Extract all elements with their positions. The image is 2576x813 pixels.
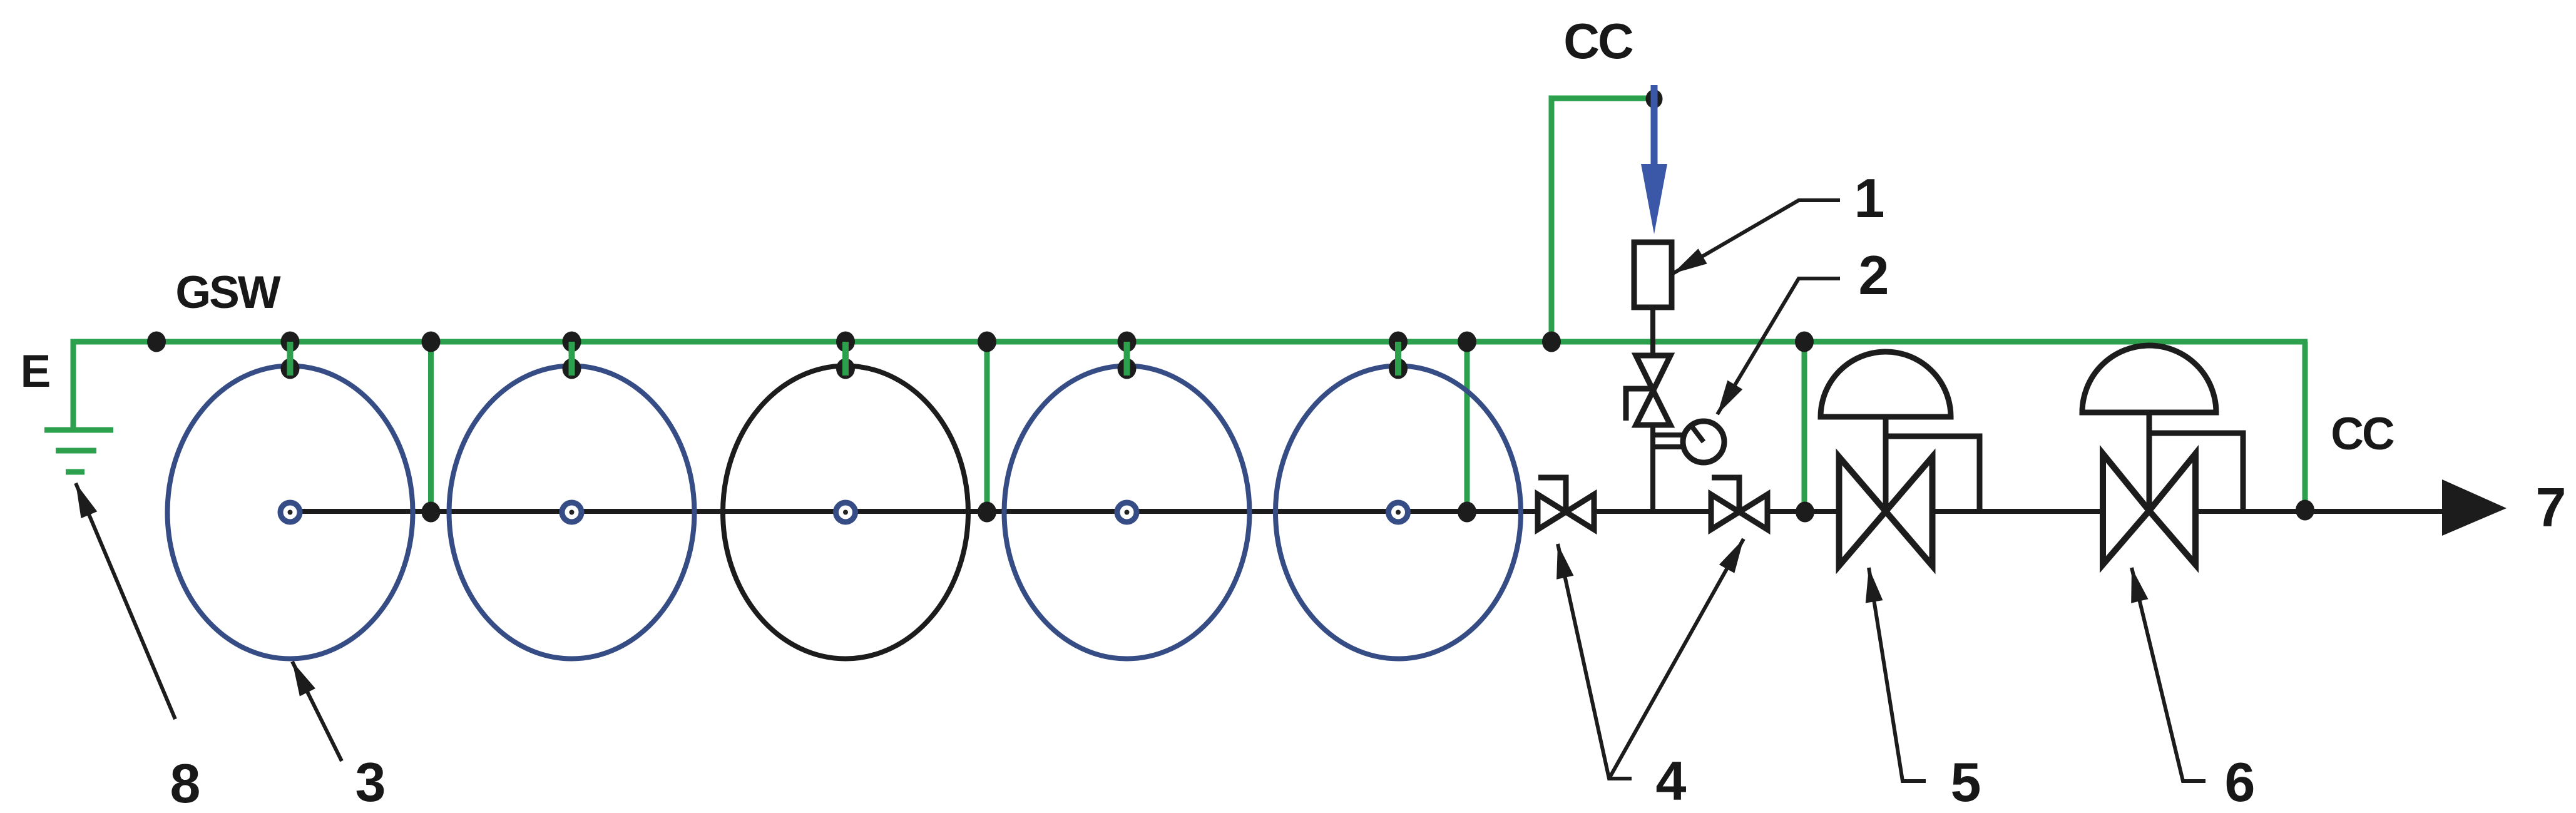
actuated valve 6 <box>2082 345 2243 565</box>
needle valve below regulator <box>1626 355 1670 425</box>
leader label 3 <box>292 662 342 761</box>
svg-text:5: 5 <box>1951 751 1981 813</box>
cylinder top nodes <box>281 359 300 379</box>
actuated valve 5 <box>1821 352 1980 566</box>
outlet arrow 7 <box>2442 479 2507 536</box>
svg-text:2: 2 <box>1859 244 1889 306</box>
wire CC drop right <box>2303 342 2308 510</box>
hand valve 4a <box>1538 478 1594 529</box>
bus junction nodes <box>147 332 166 352</box>
svg-text:7: 7 <box>2536 476 2567 538</box>
hand valve 4b <box>1711 478 1767 529</box>
pressure gauge 2 <box>1653 421 1724 463</box>
wire stubs bus-to-cylinder tops <box>287 342 294 376</box>
cylinder (second) <box>449 366 695 659</box>
svg-text:E: E <box>21 346 51 397</box>
leader label 8 <box>76 483 175 719</box>
svg-text:3: 3 <box>355 751 386 813</box>
pipe junction nodes <box>422 502 441 523</box>
cylinder (fifth) <box>1275 366 1521 659</box>
cylinder (fourth) <box>1004 366 1250 659</box>
svg-text:CC: CC <box>2331 409 2394 459</box>
svg-text:4: 4 <box>1656 750 1687 812</box>
node CC top <box>1646 89 1663 108</box>
wire main pipe <box>290 509 2443 514</box>
svg-text:GSW: GSW <box>175 267 280 318</box>
wire drop to pipe node C <box>1464 342 1470 511</box>
wire needle valve to pipe <box>1650 425 1655 511</box>
leader label 1 <box>1673 200 1840 274</box>
wire ground drop E <box>71 342 76 432</box>
leader label 6 <box>2132 568 2205 781</box>
leader label 4 <box>1558 544 1632 779</box>
regulator 1 body <box>1634 242 1672 307</box>
wire GSW bus <box>71 339 2308 345</box>
svg-text:1: 1 <box>1854 167 1885 229</box>
leader label 2 <box>1717 279 1840 414</box>
wire drop to pipe node B <box>984 342 990 511</box>
svg-text:6: 6 <box>2225 751 2256 813</box>
cylinder 3 (first) <box>168 366 413 659</box>
cylinder (third) <box>723 366 968 659</box>
wire drop to pipe node D <box>1802 342 1807 511</box>
cylinder center ports <box>280 503 300 522</box>
wire drop to pipe node A <box>428 342 434 511</box>
ground E symbol <box>44 430 113 472</box>
wire CC riser <box>1551 98 1654 342</box>
svg-text:8: 8 <box>170 752 201 813</box>
leader label 5 <box>1869 568 1926 781</box>
svg-text:CC: CC <box>1563 13 1633 69</box>
blue supply arrow <box>1651 85 1658 168</box>
wire regulator stem <box>1650 307 1655 357</box>
